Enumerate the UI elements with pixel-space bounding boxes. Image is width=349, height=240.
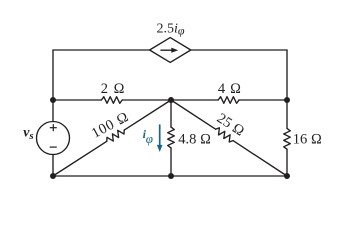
svg-text:100 Ω: 100 Ω [89,109,132,142]
svg-text:4.8 Ω: 4.8 Ω [178,132,211,148]
current arrow i_phi (teal) [157,124,163,152]
wire diagonal 100ohm upper segment [124,100,171,130]
resistor 4.8ohm [168,127,175,148]
wire top-left vertical [52,50,54,100]
node dot right bottom [284,173,290,179]
svg-text:16 Ω: 16 Ω [293,132,322,148]
dependent source arrow [161,48,178,53]
wire middle horizontal: center node to R4 [171,99,218,101]
svg-text:2.5iφ: 2.5iφ [157,22,185,38]
wire center vertical lower [170,148,172,176]
node dot center bottom [168,173,174,179]
node dot right middle [284,97,290,103]
resistor 4ohm [218,97,239,104]
wire middle horizontal: R4 to right node [239,99,287,101]
svg-text:4 Ω: 4 Ω [218,81,242,97]
dependent source U1 diamond 2.5i_phi [150,38,191,63]
resistor 25ohm [216,128,233,142]
wire left vertical below source [52,155,54,177]
node dot center [168,97,174,103]
wire middle horizontal: node A to R2 [53,99,101,101]
svg-text:2 Ω: 2 Ω [101,81,126,97]
wire right vertical: node to R16 [286,100,288,128]
svg-text:vs: vs [23,126,34,143]
wire middle horizontal: R2 to center node [122,99,171,101]
wire bottom horizontal [53,175,287,177]
node dot left middle [50,97,56,103]
node dot left bottom [50,173,56,179]
wire diagonal 25ohm lower segment [233,141,287,176]
voltage source vs circle [37,122,70,155]
wire diagonal 25ohm upper segment [171,100,216,129]
resistor 100ohm [107,130,124,141]
wire right vertical upper [286,50,288,100]
resistor 16ohm [284,128,291,149]
vs source minus sign [50,146,57,148]
vs source plus sign [50,124,57,147]
wire top horizontal right of diamond [191,49,287,51]
wire left vertical above source [52,100,54,122]
resistor 2ohm [101,97,122,104]
wire diagonal 100ohm lower segment [53,141,107,176]
wire right vertical: R16 to bottom [286,149,288,176]
svg-text:iφ: iφ [143,127,153,146]
wire top horizontal left of diamond [53,49,150,51]
wire center vertical upper [170,100,172,127]
